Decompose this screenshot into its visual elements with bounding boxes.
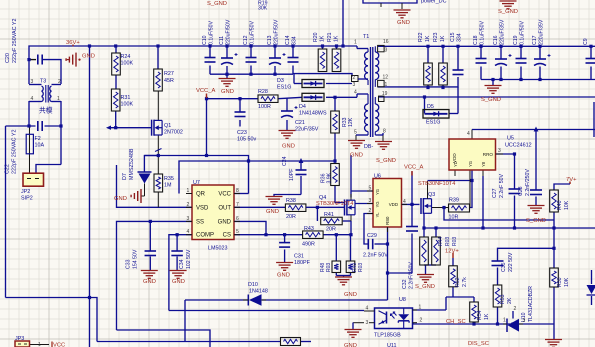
svg-text:R27: R27	[164, 71, 174, 77]
svg-text:GND: GND	[344, 292, 357, 298]
svg-text:OUT: OUT	[218, 205, 231, 211]
svg-text:Q1: Q1	[164, 123, 171, 129]
svg-text:C27: C27	[492, 188, 498, 198]
svg-text:102 50V: 102 50V	[186, 249, 192, 269]
svg-text:D10: D10	[248, 282, 258, 288]
svg-text:R03: R03	[358, 263, 364, 272]
svg-text:19: 19	[382, 91, 388, 97]
svg-text:1K: 1K	[334, 35, 340, 42]
svg-text:222 50V: 222 50V	[508, 252, 514, 272]
svg-text:334: 334	[457, 33, 463, 42]
svg-text:220uF/35V: 220uF/35V	[539, 19, 545, 45]
svg-text:30K: 30K	[258, 6, 268, 12]
svg-text:1N4148WS: 1N4148WS	[299, 111, 327, 117]
svg-text:D7: D7	[122, 173, 128, 180]
svg-text:power_DC: power_DC	[421, 0, 447, 5]
svg-text:U7: U7	[193, 180, 200, 186]
svg-text:1K: 1K	[440, 35, 446, 42]
svg-text:2: 2	[353, 75, 356, 81]
svg-text:VSD: VSD	[196, 205, 209, 211]
svg-text:1: 1	[385, 82, 388, 88]
svg-text:5: 5	[369, 186, 372, 192]
svg-text:1: 1	[38, 342, 41, 347]
svg-text:ES1G: ES1G	[426, 120, 440, 126]
svg-text:C10: C10	[202, 35, 208, 45]
svg-text:2.2nF 50V: 2.2nF 50V	[499, 174, 505, 198]
svg-text:6: 6	[236, 216, 239, 222]
svg-text:GND: GND	[350, 153, 363, 159]
svg-text:100K: 100K	[121, 61, 134, 67]
svg-text:334: 334	[292, 36, 298, 45]
svg-text:10PF: 10PF	[289, 169, 295, 181]
svg-text:1K: 1K	[425, 35, 431, 42]
svg-text:YD: YD	[453, 161, 458, 167]
svg-text:3.9K: 3.9K	[327, 172, 333, 183]
svg-text:GND: GND	[143, 279, 156, 285]
svg-text:R43: R43	[304, 226, 314, 232]
svg-text:C18: C18	[473, 35, 479, 45]
svg-text:SS: SS	[196, 219, 204, 225]
svg-text:490R: 490R	[302, 242, 315, 248]
svg-text:共模: 共模	[39, 106, 53, 115]
svg-text:U5: U5	[507, 136, 514, 142]
svg-text:C16: C16	[493, 35, 499, 45]
svg-text:R39: R39	[449, 198, 459, 204]
svg-text:C31: C31	[294, 254, 304, 260]
svg-text:C23: C23	[237, 130, 247, 136]
svg-text:R50: R50	[557, 277, 563, 287]
svg-text:GND: GND	[218, 219, 232, 225]
svg-text:100K: 100K	[121, 102, 134, 108]
svg-text:C11: C11	[219, 36, 225, 45]
svg-text:VCC: VCC	[218, 192, 231, 198]
svg-text:2.2nF 50V: 2.2nF 50V	[363, 253, 388, 259]
svg-text:3: 3	[366, 320, 369, 326]
svg-text:2: 2	[58, 79, 61, 85]
svg-text:2.2nF/250V: 2.2nF/250V	[525, 169, 531, 196]
svg-text:C29: C29	[367, 233, 377, 239]
svg-text:C15: C15	[450, 32, 456, 42]
svg-text:R52: R52	[455, 277, 461, 287]
svg-text:R24: R24	[121, 54, 131, 60]
svg-text:C35: C35	[501, 262, 507, 272]
svg-text:R03: R03	[452, 237, 458, 246]
svg-text:1: 1	[503, 318, 506, 324]
svg-text:1M: 1M	[164, 183, 172, 189]
svg-text:0.1uF/50V: 0.1uF/50V	[480, 21, 486, 45]
svg-text:7: 7	[236, 202, 239, 208]
svg-text:0.1uF/50V: 0.1uF/50V	[209, 21, 215, 45]
svg-text:3: 3	[498, 148, 501, 154]
svg-text:COMP: COMP	[196, 233, 214, 239]
svg-text:8: 8	[236, 188, 239, 194]
svg-text:D5: D5	[427, 104, 434, 110]
svg-text:2: 2	[187, 202, 190, 208]
svg-text:180PF: 180PF	[294, 260, 311, 266]
svg-text:222pF 250VAC Y2: 222pF 250VAC Y2	[12, 130, 18, 174]
svg-text:VCC: VCC	[53, 343, 65, 347]
svg-text:1: 1	[57, 96, 60, 102]
svg-text:Q3: Q3	[428, 192, 435, 198]
svg-text:CH_SC: CH_SC	[446, 319, 466, 325]
svg-text:S_GND: S_GND	[376, 158, 396, 164]
svg-text:1: 1	[419, 305, 422, 311]
svg-text:GND: GND	[266, 209, 279, 215]
svg-text:C32: C32	[402, 279, 408, 289]
svg-text:D3: D3	[277, 78, 284, 84]
svg-text:SIP2: SIP2	[21, 196, 33, 202]
svg-text:100R: 100R	[258, 104, 271, 110]
svg-text:D4: D4	[299, 104, 306, 110]
svg-text:10K: 10K	[564, 277, 570, 287]
svg-text:S_GND: S_GND	[498, 9, 518, 15]
svg-text:R35: R35	[164, 176, 174, 182]
svg-text:GND: GND	[172, 279, 185, 285]
svg-text:220uF/50V: 220uF/50V	[226, 19, 232, 45]
svg-text:45R: 45R	[164, 78, 174, 84]
svg-text:F2: F2	[35, 136, 41, 142]
svg-text:C17: C17	[532, 35, 538, 45]
svg-text:220uF/35V: 220uF/35V	[500, 19, 506, 45]
svg-text:VDD: VDD	[389, 202, 398, 207]
svg-text:R03: R03	[445, 237, 451, 246]
svg-text:2: 2	[369, 208, 372, 214]
svg-text:DIS_SC: DIS_SC	[468, 341, 489, 347]
svg-text:R28: R28	[258, 89, 268, 95]
svg-text:C22: C22	[5, 164, 11, 174]
svg-text:4: 4	[403, 199, 406, 205]
svg-text:Y8: Y8	[481, 161, 486, 167]
svg-text:MMSZ5248B: MMSZ5248B	[129, 148, 135, 180]
svg-text:R20: R20	[313, 32, 319, 42]
svg-text:S_GND: S_GND	[207, 1, 227, 7]
svg-text:1: 1	[187, 188, 190, 194]
svg-text:S_GND: S_GND	[526, 218, 546, 224]
svg-text:3: 3	[353, 82, 356, 88]
svg-text:12: 12	[383, 75, 389, 81]
svg-text:C19: C19	[513, 35, 519, 45]
svg-text:R54: R54	[477, 310, 483, 320]
svg-text:T1: T1	[363, 34, 369, 40]
svg-text:RRO: RRO	[483, 152, 494, 157]
svg-text:TL431ACDBZR: TL431ACDBZR	[528, 286, 534, 322]
svg-text:GND: GND	[344, 343, 357, 347]
svg-text:22uF/35V: 22uF/35V	[295, 127, 319, 133]
svg-text:4: 4	[187, 229, 190, 235]
svg-text:105 50v: 105 50v	[237, 137, 256, 143]
svg-text:U6: U6	[374, 174, 381, 180]
svg-text:C28: C28	[518, 186, 524, 196]
svg-text:YL: YL	[375, 212, 380, 218]
svg-text:GND: GND	[221, 89, 234, 95]
svg-text:C21: C21	[295, 120, 305, 126]
svg-text:VCC_A: VCC_A	[196, 88, 215, 94]
svg-text:220uF/50V: 220uF/50V	[274, 19, 280, 45]
svg-text:4: 4	[31, 96, 34, 102]
svg-text:20R: 20R	[286, 214, 296, 220]
svg-text:R31: R31	[121, 95, 131, 101]
svg-text:3: 3	[369, 198, 372, 204]
svg-text:C24: C24	[282, 156, 288, 166]
svg-text:R80: R80	[385, 216, 390, 225]
svg-text:4: 4	[467, 131, 470, 137]
svg-text:JP3: JP3	[15, 336, 24, 342]
svg-text:U11: U11	[387, 343, 397, 347]
svg-text:R23: R23	[433, 32, 439, 42]
svg-text:U8: U8	[399, 297, 406, 303]
svg-text:GND: GND	[277, 273, 290, 279]
svg-text:UCC24612: UCC24612	[505, 143, 532, 149]
svg-text:0.1uF/50V: 0.1uF/50V	[250, 21, 256, 45]
svg-text:ES1G: ES1G	[277, 85, 291, 91]
svg-text:C13: C13	[267, 35, 273, 45]
svg-text:222pF 250VAC Y2: 222pF 250VAC Y2	[12, 19, 18, 63]
svg-text:R38: R38	[286, 198, 296, 204]
svg-text:7V+: 7V+	[566, 177, 577, 183]
svg-text:GND: GND	[282, 144, 295, 150]
svg-text:4: 4	[366, 306, 369, 312]
svg-text:10R: 10R	[449, 215, 459, 221]
svg-text:C12: C12	[243, 35, 249, 45]
svg-text:10A: 10A	[35, 143, 45, 149]
svg-text:R44: R44	[438, 237, 444, 246]
svg-text:GND: GND	[397, 20, 410, 26]
svg-text:C34: C34	[179, 259, 185, 269]
svg-text:TLP185GB: TLP185GB	[374, 333, 401, 339]
svg-text:154 50V: 154 50V	[133, 249, 139, 269]
svg-text:C9: C9	[583, 38, 589, 45]
svg-text:DB-: DB-	[364, 144, 373, 150]
svg-text:0.1uF/50V: 0.1uF/50V	[520, 21, 526, 45]
svg-text:3: 3	[31, 79, 34, 85]
svg-text:C14: C14	[285, 35, 291, 45]
svg-text:GND: GND	[114, 196, 127, 202]
svg-text:1K: 1K	[320, 35, 326, 42]
svg-text:R40: R40	[557, 200, 563, 210]
svg-text:3: 3	[187, 216, 190, 222]
svg-text:T3: T3	[40, 79, 46, 85]
svg-text:R03: R03	[326, 263, 332, 272]
svg-text:2: 2	[514, 306, 517, 312]
svg-text:2: 2	[420, 318, 423, 324]
svg-text:2K: 2K	[507, 297, 513, 304]
svg-text:YG: YG	[375, 189, 380, 195]
svg-text:STB30NF10T4: STB30NF10T4	[316, 201, 353, 207]
svg-text:R41: R41	[324, 212, 334, 218]
svg-text:2.7k: 2.7k	[462, 277, 468, 287]
svg-text:1N4148: 1N4148	[249, 289, 268, 295]
svg-text:12K: 12K	[348, 117, 354, 127]
svg-text:GND: GND	[82, 54, 95, 60]
svg-text:R22: R22	[418, 32, 424, 42]
svg-text:2.2nF/350V: 2.2nF/350V	[409, 262, 415, 289]
svg-text:VCC_A: VCC_A	[404, 165, 423, 171]
svg-text:C20: C20	[5, 53, 11, 63]
svg-text:S_GND: S_GND	[481, 97, 501, 103]
svg-text:1K: 1K	[484, 313, 490, 320]
svg-text:10K: 10K	[564, 200, 570, 210]
svg-text:12V+: 12V+	[445, 249, 459, 255]
svg-text:YG: YG	[468, 161, 473, 167]
svg-text:3: 3	[385, 48, 388, 54]
svg-text:CS: CS	[223, 233, 231, 239]
svg-text:LM5023: LM5023	[208, 246, 227, 252]
svg-text:QR: QR	[196, 192, 206, 198]
svg-text:C33: C33	[126, 259, 132, 269]
svg-text:2N7002: 2N7002	[164, 130, 183, 136]
svg-text:S_GND: S_GND	[415, 284, 435, 290]
svg-text:5: 5	[354, 130, 357, 136]
svg-text:1: 1	[354, 40, 357, 46]
svg-text:20R: 20R	[326, 227, 336, 233]
svg-text:STB30NF10T4: STB30NF10T4	[418, 181, 455, 187]
svg-text:R53: R53	[500, 294, 506, 304]
svg-text:JP2: JP2	[21, 189, 30, 195]
svg-text:5: 5	[236, 229, 239, 235]
svg-text:R21: R21	[327, 32, 333, 42]
svg-text:8: 8	[383, 129, 386, 135]
svg-text:3: 3	[523, 318, 526, 324]
svg-text:YG: YG	[375, 201, 380, 207]
svg-text:4: 4	[354, 90, 357, 96]
svg-text:16: 16	[383, 39, 389, 45]
